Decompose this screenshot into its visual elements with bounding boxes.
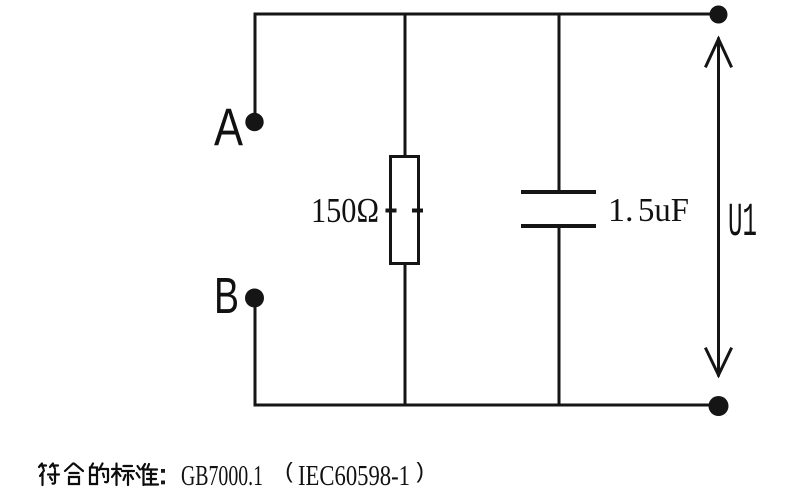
svg-text:GB7000.1: GB7000.1 xyxy=(181,461,263,492)
svg-text:150Ω: 150Ω xyxy=(311,191,379,230)
svg-text:B: B xyxy=(214,267,239,324)
svg-text:IEC60598-1: IEC60598-1 xyxy=(298,461,410,492)
svg-text:5uF: 5uF xyxy=(638,192,689,229)
svg-text:U1: U1 xyxy=(728,197,757,250)
svg-text:): ) xyxy=(413,460,426,485)
svg-text:1.: 1. xyxy=(608,192,634,229)
svg-text:A: A xyxy=(214,98,244,157)
svg-text:(: ( xyxy=(283,460,296,485)
